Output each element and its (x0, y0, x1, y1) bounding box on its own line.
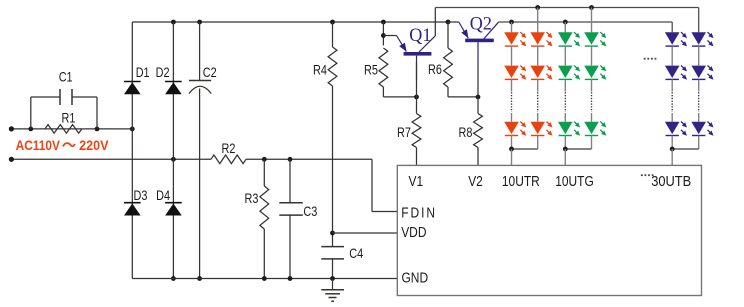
svg-text:V1: V1 (409, 173, 424, 189)
wire R5 top lead (382, 22, 384, 46)
node C2 top (197, 20, 202, 25)
svg-text:220V: 220V (79, 138, 109, 154)
LED red LED column 2 row 3 (530, 122, 545, 134)
wire blue pair join (672, 148, 699, 150)
svg-text:10UTR: 10UTR (502, 173, 540, 189)
svg-text:V2: V2 (468, 173, 483, 189)
wire red LED column 1 segment 1 (511, 46, 513, 65)
svg-text:AC110V: AC110V (16, 137, 61, 153)
wire C3 column upper (289, 159, 291, 203)
wire C3 column lower (289, 215, 291, 278)
node green column 1 top (563, 20, 568, 25)
svg-text:R4: R4 (313, 62, 327, 77)
node D4 bottom (171, 276, 176, 281)
diode D2 (165, 81, 182, 83)
node red column 1 top (509, 20, 514, 25)
wire red pair join (512, 148, 538, 150)
wire R5 bottom lead (382, 87, 384, 97)
LED red LED column 1 row 1 (504, 32, 519, 44)
wire Q2 collector bus (499, 21, 673, 23)
node red pair join (509, 147, 514, 152)
capacitor C1 (59, 89, 61, 105)
wire V+ top rail (132, 21, 448, 23)
wire blue LED column 1 to join (671, 136, 673, 149)
wire green pair join (565, 148, 591, 150)
LED red LED column 2 row 2 (530, 66, 545, 78)
node C3 top (288, 157, 293, 162)
capacitor C2 (189, 80, 211, 82)
wire green LED column 2 segment 2 (dotted continuation) (591, 80, 593, 92)
node red column 2 top (535, 5, 540, 10)
wire Q1 collector riser (434, 8, 436, 37)
resistor R3 (260, 186, 269, 229)
svg-text:R8: R8 (459, 125, 473, 140)
wire Q1 collector bus (435, 7, 698, 9)
node C3 bottom (288, 276, 293, 281)
wire C2 column upper (199, 22, 201, 81)
node AC1 input terminal (9, 126, 14, 131)
svg-text:R5: R5 (364, 62, 378, 77)
svg-text:10UTG: 10UTG (555, 173, 594, 189)
wire Q2 base lead (477, 62, 479, 114)
wire blue pair to 30UTB pin (671, 149, 673, 165)
wire D2 column (172, 22, 174, 159)
svg-text:FDIN: FDIN (401, 204, 437, 220)
ellipsis before 30UTB (641, 174, 643, 176)
op-amp U1 (LED driver IC box) (397, 165, 701, 295)
capacitor C3 (279, 202, 303, 204)
wire red LED column 2 segment 1 (537, 46, 539, 65)
svg-text:Q2: Q2 (470, 13, 492, 35)
LED green LED column 1 row 1 (558, 32, 573, 44)
wire AC input line 2 (bottom) (11, 158, 211, 160)
LED blue LED column 2 row 2 (691, 66, 706, 78)
wire green LED column 2 feed (591, 8, 593, 33)
LED green LED column 2 row 2 (584, 66, 599, 78)
node Q2 base / R6 / R8 (476, 95, 481, 100)
node blue pair join (670, 147, 675, 152)
ellipsis between LED groups (644, 58, 646, 60)
node R3 top (262, 157, 267, 162)
wire D4 column (172, 159, 174, 278)
wire blue LED column 1 segment 2 (dotted continuation) (671, 80, 673, 92)
wire blue column 2 riser (698, 8, 700, 33)
ground (332, 279, 334, 290)
wire R8 to V2 pin (477, 148, 479, 166)
wire C1 branch right (72, 96, 97, 98)
LED blue LED column 2 row 3 (691, 122, 706, 134)
resistor R4 (328, 47, 337, 86)
capacitor C4 (321, 246, 344, 248)
wire R3 column lower (263, 229, 265, 279)
LED green LED column 2 row 3 (584, 122, 599, 134)
svg-text:C2: C2 (203, 65, 217, 80)
resistor R7 (412, 114, 421, 148)
svg-text:R2: R2 (222, 141, 236, 156)
wire C2 column lower (199, 89, 201, 279)
svg-text:D4: D4 (156, 188, 170, 203)
wire red LED column 2 feed (537, 8, 539, 33)
LED blue LED column 1 row 2 (665, 66, 680, 78)
LED blue LED column 2 row 1 (691, 32, 706, 44)
wire blue column 1 riser (671, 22, 673, 32)
wire blue LED column 1 segment 1 (671, 46, 673, 65)
node C4 bottom (330, 276, 335, 281)
node R3 bottom (262, 276, 267, 281)
wire red LED column 1 feed (511, 22, 513, 32)
LED red LED column 1 row 3 (504, 122, 519, 134)
svg-text:C3: C3 (303, 204, 317, 219)
svg-text:R3: R3 (245, 191, 259, 206)
wire R6 bottom lead (447, 87, 449, 97)
wire R4 to VDD (332, 86, 334, 247)
diode D4 (165, 202, 182, 204)
node C1/R1 right (95, 126, 100, 131)
wire R6 top lead (447, 22, 449, 48)
svg-text:R1: R1 (62, 110, 76, 125)
wire green LED column 1 segment 2 (dotted continuation) (564, 80, 566, 92)
resistor R8 (474, 114, 483, 148)
wire C4 bottom lead (332, 259, 334, 279)
node D2 top (171, 20, 176, 25)
svg-text:D2: D2 (156, 65, 170, 80)
node R6 top / Q2 emitter (446, 20, 451, 25)
LED blue LED column 1 row 3 (665, 122, 680, 134)
wire green LED column 1 feed (564, 22, 566, 32)
wire red LED column 1 segment 2 (dotted continuation) (511, 80, 513, 92)
wire red LED column 2 to join (537, 136, 539, 149)
wire D3 column (131, 129, 133, 279)
wire green pair to 10UTG pin (564, 149, 566, 165)
resistor R1 (45, 125, 82, 134)
wire green LED column 2 segment 1 (591, 46, 593, 65)
LED green LED column 1 row 3 (558, 122, 573, 134)
diode D1 (124, 81, 141, 83)
svg-text:R6: R6 (428, 62, 442, 77)
wire green LED column 1 segment 1 (564, 46, 566, 65)
svg-text:R7: R7 (397, 125, 411, 140)
svg-text:VDD: VDD (401, 224, 426, 240)
diode D3 (124, 202, 141, 204)
LED green LED column 2 row 1 (584, 32, 599, 44)
node C1/R1 left (28, 126, 33, 131)
node AC1 to bridge (130, 126, 135, 131)
node Q1 emitter tap (381, 33, 386, 38)
wire FDIN drop (371, 159, 373, 211)
wire green LED column 1 to join (564, 136, 566, 149)
resistor R5 (379, 48, 388, 87)
wire blue LED column 2 to join (698, 136, 700, 149)
svg-text:C1: C1 (59, 69, 73, 84)
resistor R6 (444, 48, 453, 87)
wire green LED column 2 to join (591, 136, 593, 149)
transistor Q1 (404, 52, 432, 56)
svg-text:Q1: Q1 (409, 24, 431, 46)
wire C1 right riser (96, 97, 98, 129)
wire R3 column upper (263, 159, 265, 186)
wire D1 column (131, 22, 133, 129)
svg-text:D3: D3 (134, 188, 148, 203)
wire VDD into IC (333, 232, 398, 234)
wire R4 top lead (332, 22, 334, 47)
wire Q1 base lead (416, 62, 418, 114)
wire R2 to FDIN corner (246, 158, 372, 160)
LED red LED column 1 row 2 (504, 66, 519, 78)
node C2 bottom (197, 276, 202, 281)
svg-text:C4: C4 (349, 246, 363, 261)
node AC2 input terminal (9, 157, 14, 162)
node green pair join (563, 147, 568, 152)
node green column 2 top (589, 5, 594, 10)
node VDD junction (330, 231, 335, 236)
wire V- bottom rail / GND (132, 278, 397, 280)
wire R7 to V1 pin (416, 148, 418, 166)
node R5 top (381, 20, 386, 25)
node Q1 base / R5 / R7 (414, 95, 419, 100)
wire blue LED column 2 segment 1 (698, 46, 700, 65)
svg-text:D1: D1 (136, 65, 150, 80)
wire blue LED column 2 segment 2 (dotted continuation) (698, 80, 700, 92)
wire C1 left riser (30, 97, 32, 129)
transistor Q2 (465, 39, 494, 43)
wire red LED column 1 to join (511, 136, 513, 149)
wire C1 branch left (31, 96, 60, 98)
wire FDIN into IC (372, 211, 397, 213)
wire AC input line 1 (top) (11, 128, 132, 130)
LED blue LED column 1 row 1 (665, 32, 680, 44)
svg-text:30UTB: 30UTB (651, 173, 691, 189)
LED green LED column 1 row 2 (558, 66, 573, 78)
wire red pair to 10UTR pin (511, 149, 513, 165)
resistor R2 (211, 155, 246, 164)
svg-text:GND: GND (402, 269, 429, 285)
LED red LED column 2 row 1 (530, 32, 545, 44)
node AC2 / D2 D4 junction (171, 157, 176, 162)
wire red LED column 2 segment 2 (dotted continuation) (537, 80, 539, 92)
node R4 top (330, 20, 335, 25)
